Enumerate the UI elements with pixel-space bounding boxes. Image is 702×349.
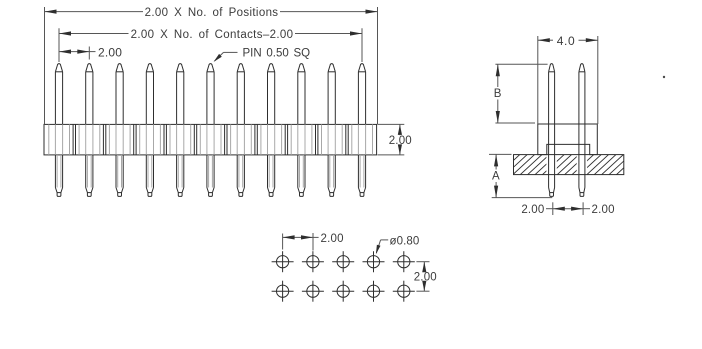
svg-text:2.00: 2.00 xyxy=(321,233,344,245)
dimension: 2.00 X No. of Positions xyxy=(45,7,378,124)
pin right (side view) xyxy=(579,64,585,197)
dimension: B xyxy=(494,64,548,123)
svg-text:A: A xyxy=(492,171,500,183)
pad hole row1 col5 xyxy=(393,251,415,272)
svg-text:2.00: 2.00 xyxy=(592,204,615,216)
dimension: 2.00 row spacing xyxy=(414,262,437,292)
svg-text:2.00 X No. of Contacts–2.00: 2.00 X No. of Contacts–2.00 xyxy=(131,29,294,41)
pad hole row1 col2 xyxy=(302,251,324,272)
leader: PIN 0.50 SQ xyxy=(214,47,311,62)
pin 4 (front view) xyxy=(146,64,153,197)
dimension: 4.0 body width xyxy=(538,34,598,124)
pad hole row2 col5 xyxy=(393,281,415,302)
pin 7 (front view) xyxy=(237,64,244,197)
svg-text:2.00: 2.00 xyxy=(414,271,437,283)
dimension: 2.00 pitch xyxy=(59,45,122,59)
dimension: 2.00 body height xyxy=(378,124,412,154)
svg-text:2.00: 2.00 xyxy=(521,204,544,216)
dimension: 2.00 / 2.00 pin spacing (side view) xyxy=(521,202,614,216)
pin 3 (front view) xyxy=(116,64,123,197)
svg-text:2.00 X No. of Positions: 2.00 X No. of Positions xyxy=(145,7,279,19)
pin left (side view) xyxy=(549,64,555,197)
svg-text:ø0.80: ø0.80 xyxy=(390,235,420,247)
pin 9 (front view) xyxy=(298,64,305,197)
pin 10 (front view) xyxy=(328,64,335,197)
pad hole row2 col3 xyxy=(332,281,354,302)
pad hole row2 col1 xyxy=(272,281,294,302)
pad hole row1 col4 xyxy=(363,251,385,272)
svg-text:2.00: 2.00 xyxy=(98,45,122,59)
pad hole row1 col1 xyxy=(272,251,294,272)
dimension: 2.00 pitch contacts xyxy=(59,28,362,62)
svg-text:PIN 0.50 SQ: PIN 0.50 SQ xyxy=(243,47,311,59)
svg-text:B: B xyxy=(494,88,502,100)
pin 11 (front view) xyxy=(358,64,365,197)
dimension: A xyxy=(489,154,552,197)
pin 1 (front view) xyxy=(55,64,62,197)
pin 8 (front view) xyxy=(268,64,275,197)
pin 6 (front view) xyxy=(207,64,214,197)
dimension: 2.00 pad pitch xyxy=(283,233,344,251)
pad hole row2 col4 xyxy=(363,281,385,302)
header body cell divisions xyxy=(49,124,373,154)
leader: dia 0.80 hole xyxy=(376,235,420,254)
PCB (hatched, side view) xyxy=(489,153,648,177)
pin 2 (front view) xyxy=(86,64,93,197)
pad hole row1 col3 xyxy=(332,251,354,272)
header body (side view) xyxy=(538,124,598,155)
svg-text:4.0: 4.0 xyxy=(557,34,575,48)
header body outline xyxy=(44,124,377,154)
pad hole row2 col2 xyxy=(302,281,324,302)
stray dot mark xyxy=(663,76,665,78)
pin 5 (front view) xyxy=(177,64,184,197)
svg-text:2.00: 2.00 xyxy=(389,135,412,147)
